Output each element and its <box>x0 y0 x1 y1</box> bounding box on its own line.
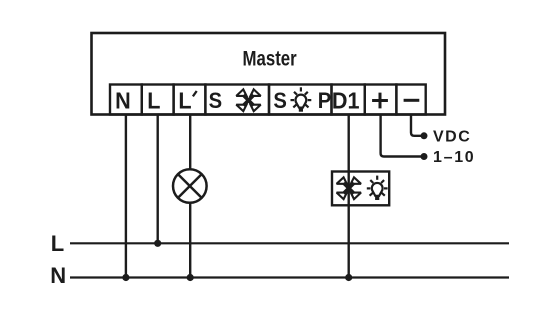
svg-text:L: L <box>147 88 160 114</box>
terminal L' <box>174 85 206 115</box>
svg-text:L: L <box>51 231 64 256</box>
svg-text:1–10: 1–10 <box>433 149 475 166</box>
svg-text:N: N <box>50 263 66 288</box>
terminal D1 <box>332 85 365 115</box>
lamp E1 <box>173 169 207 203</box>
junction load return on net N <box>345 274 352 281</box>
svg-text:N: N <box>115 88 131 114</box>
svg-text:S: S <box>209 89 222 113</box>
svg-text:P: P <box>318 89 331 113</box>
junction N wire on net N <box>122 274 129 281</box>
terminal L <box>142 85 174 115</box>
Master box U1 <box>92 33 446 115</box>
terminal S fan <box>205 85 269 115</box>
wire minus to VDC <box>411 115 421 136</box>
junction L wire on net L <box>154 240 161 247</box>
terminal + <box>365 85 397 115</box>
terminal S lamp P <box>269 85 332 115</box>
svg-text:S: S <box>273 89 286 113</box>
svg-text:VDC: VDC <box>433 128 471 145</box>
wire L <box>156 115 158 244</box>
wire plus to 1-10 <box>381 115 421 157</box>
svg-text:D1: D1 <box>332 88 360 114</box>
terminal N <box>110 85 142 115</box>
load box M1 fan+light <box>332 172 389 206</box>
net N <box>70 276 509 278</box>
node VDC <box>421 132 428 139</box>
svg-text:L: L <box>178 88 191 114</box>
terminal - <box>396 85 425 115</box>
node 1-10 <box>421 153 428 160</box>
junction lamp return on net N <box>187 274 194 281</box>
wire N <box>125 115 127 278</box>
net L <box>70 242 509 244</box>
svg-text:Master: Master <box>243 48 298 71</box>
wire D1 <box>348 115 350 278</box>
wire L' upper <box>189 115 191 170</box>
wire L' lower <box>189 203 191 278</box>
